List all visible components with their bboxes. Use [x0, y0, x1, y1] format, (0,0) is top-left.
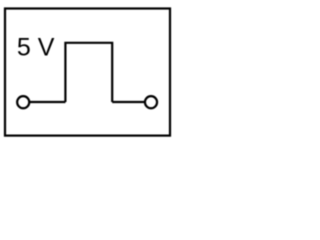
wire right: [112, 101, 145, 103]
terminal right: [145, 96, 157, 108]
terminal left: [17, 96, 29, 108]
pulse waveform: [65, 43, 112, 102]
svg-text:5 V: 5 V: [17, 34, 55, 62]
wire left: [29, 101, 65, 103]
